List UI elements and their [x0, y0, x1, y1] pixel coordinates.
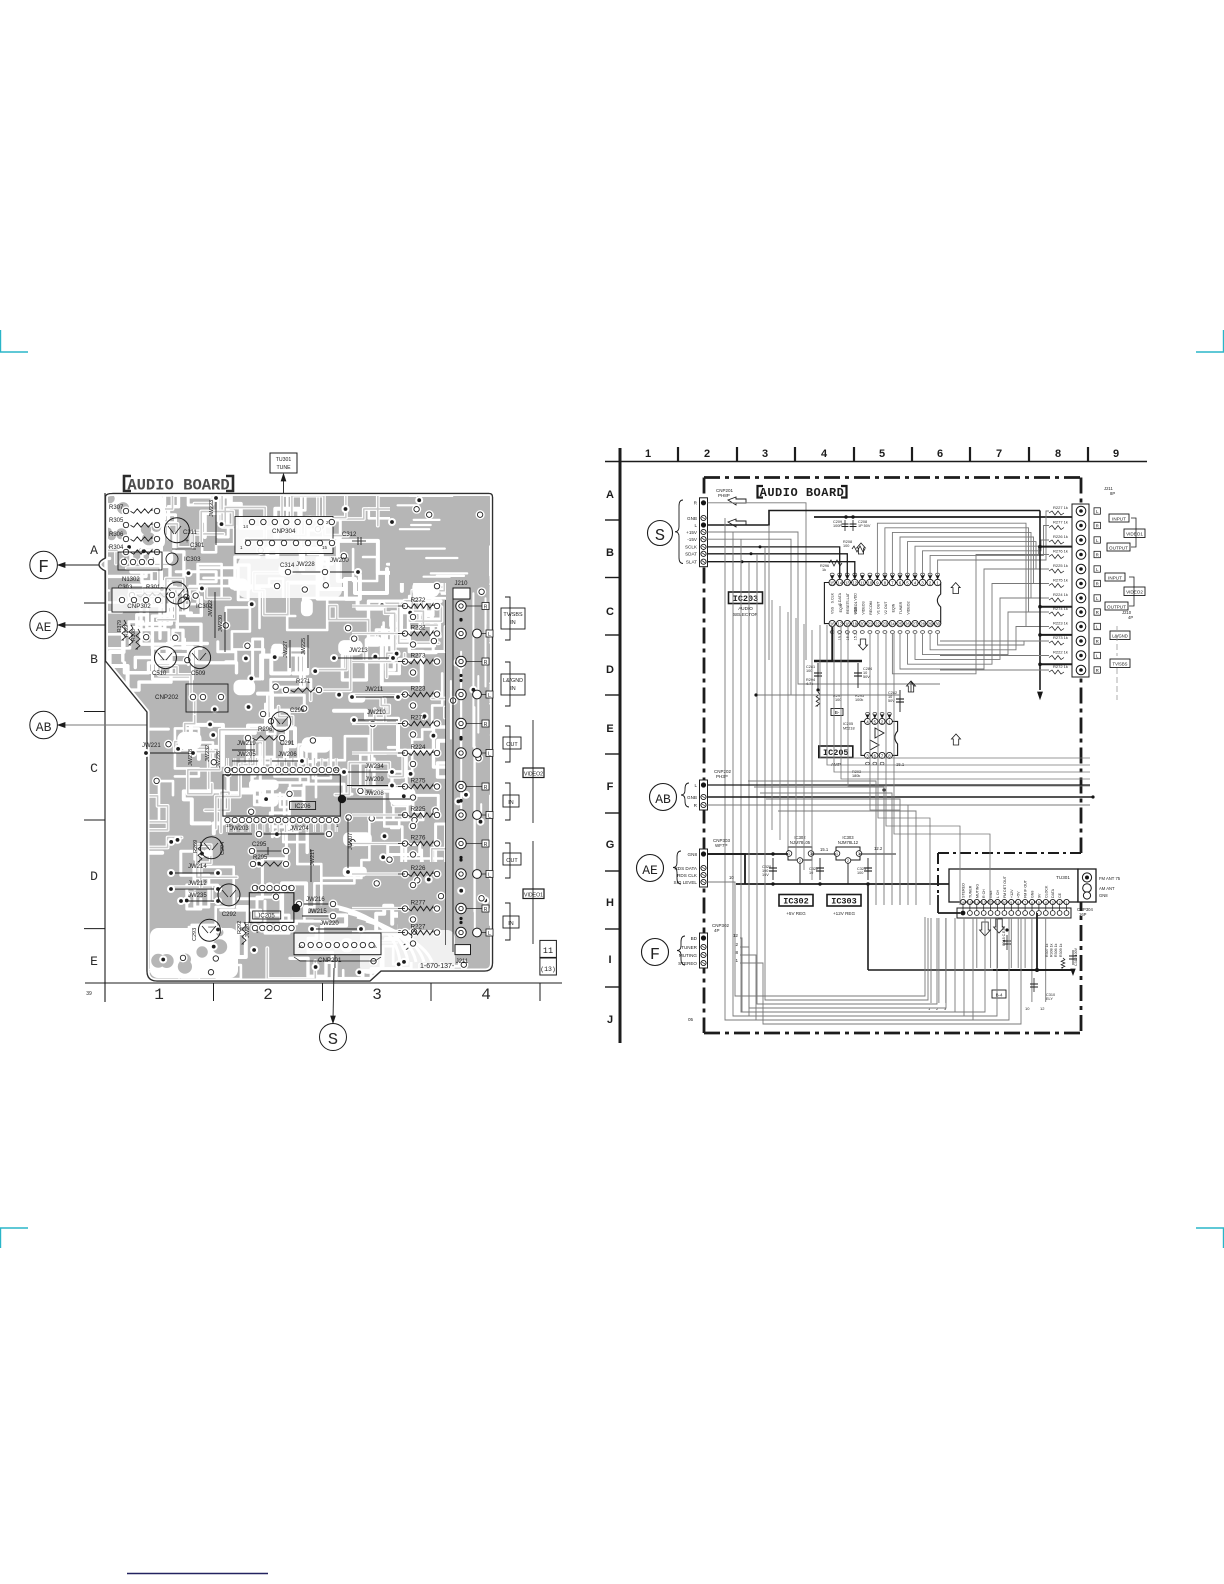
bracket L/GND group	[505, 662, 510, 706]
channel box R	[482, 603, 489, 610]
svg-text:B: B	[606, 547, 614, 559]
label IN video2	[503, 795, 519, 807]
svg-text:R306: R306	[109, 532, 124, 538]
svg-text:JW228: JW228	[296, 562, 315, 568]
ic206 pin fingers	[226, 758, 229, 766]
tuner pins	[960, 899, 965, 904]
svg-text:100: 100	[843, 544, 849, 548]
svg-text:L: L	[488, 632, 491, 638]
svg-text:9: 9	[1113, 448, 1119, 460]
svg-text:IC302: IC302	[783, 897, 809, 907]
svg-text:S.DATA: S.DATA	[838, 592, 842, 605]
jack pad row R273	[456, 656, 466, 666]
ic IC205 outline on board	[249, 893, 294, 923]
svg-text:RESET: RESET	[846, 601, 850, 614]
svg-text:15: 15	[830, 581, 835, 586]
svg-text:F: F	[38, 558, 49, 578]
flag B- box	[831, 709, 843, 716]
svg-text:GN8: GN8	[1099, 893, 1108, 898]
svg-text:C311: C311	[183, 530, 198, 536]
svg-text:TUNE: TUNE	[276, 465, 291, 471]
arrow down under IC203	[859, 639, 868, 650]
svg-text:L: L	[694, 523, 697, 528]
page crop mark bottom-left	[1, 1228, 29, 1248]
junction row y695	[756, 694, 900, 696]
wire to flag AB	[58, 724, 160, 726]
svg-text:JW230: JW230	[218, 615, 224, 632]
svg-text:IC206: IC206	[295, 804, 312, 810]
svg-text:4: 4	[481, 986, 491, 1004]
capacitor C310	[1033, 978, 1035, 992]
svg-text:D: D	[90, 869, 98, 884]
label TV/SBS IN	[501, 608, 525, 629]
wire IC303 output down	[867, 884, 869, 970]
capacitor C509	[189, 647, 211, 669]
pcb board outline restroke	[99, 494, 493, 982]
svg-text:R: R	[1096, 610, 1099, 615]
channel square R	[1094, 551, 1100, 557]
capacitor C294	[200, 837, 222, 859]
ic IC205 pins	[865, 718, 871, 724]
svg-text:R: R	[484, 722, 488, 728]
ic IC203 designator box	[729, 592, 763, 604]
svg-text:IN: IN	[508, 800, 513, 806]
wire tuner feed	[937, 895, 939, 913]
bus +B thick	[814, 516, 1072, 518]
wire AE GN8 down	[708, 854, 746, 884]
bundle from flag F connector	[740, 918, 985, 1012]
svg-text:IC205: IC205	[259, 914, 276, 920]
svg-text:JW218: JW218	[188, 749, 194, 766]
wire CNP201 to flag S	[334, 955, 336, 968]
channel square L	[1094, 537, 1100, 543]
channel box L	[486, 750, 493, 757]
transistor near R301	[166, 582, 188, 604]
svg-text:C: C	[90, 761, 98, 776]
svg-text:JW200: JW200	[330, 558, 349, 564]
svg-text:J: J	[607, 1014, 613, 1026]
flag B-4 box	[992, 990, 1006, 998]
net group dashes right	[1116, 626, 1118, 656]
regulator IC302 symbol	[788, 847, 812, 860]
svg-text:L: L	[488, 693, 491, 699]
svg-text:19: 19	[852, 622, 857, 627]
svg-text:JW201: JW201	[245, 921, 251, 938]
connector J210	[453, 588, 470, 599]
jack pad row R223	[456, 689, 466, 699]
svg-text:R223: R223	[411, 686, 426, 693]
svg-text:C318 C.EXT: C318 C.EXT	[1002, 925, 1006, 946]
channel square R	[1094, 667, 1100, 673]
channel square R	[1094, 638, 1100, 644]
svg-text:H: H	[606, 897, 614, 909]
bracket IN group video1	[505, 903, 510, 940]
svg-text:IN: IN	[510, 686, 515, 692]
svg-text:VIDEO3: VIDEO3	[862, 601, 866, 614]
svg-text:JW212: JW212	[188, 881, 207, 887]
capacitor C322	[819, 858, 821, 880]
svg-text:JW214: JW214	[188, 864, 207, 870]
svg-text:SDAT: SDAT	[685, 552, 697, 557]
schematic title AUDIO BOARD	[758, 486, 764, 498]
opamp triangles IC205	[875, 728, 884, 738]
svg-text:R: R	[1096, 582, 1099, 587]
label VIDEO2	[523, 768, 544, 778]
svg-text:GNB: GNB	[687, 795, 697, 800]
thick bar above IC205	[814, 660, 862, 663]
ic IC203 body	[824, 583, 940, 624]
svg-text:JW208: JW208	[365, 791, 384, 797]
channel box R	[482, 783, 489, 790]
label VIDEO1 schematic	[1124, 529, 1145, 538]
svg-text:24: 24	[890, 622, 895, 627]
svg-text:VIDEO2: VIDEO2	[524, 772, 543, 778]
capacitor C284	[857, 663, 859, 688]
svg-text:JW203: JW203	[230, 826, 249, 832]
svg-text:RECOM: RECOM	[869, 601, 873, 614]
svg-text:JW226: JW226	[216, 751, 222, 768]
svg-text:4P: 4P	[714, 928, 720, 933]
capacitor C321	[867, 858, 869, 880]
channel box L	[486, 691, 493, 698]
svg-text:180k: 180k	[852, 774, 860, 778]
svg-text:F: F	[607, 781, 614, 793]
svg-text:L: L	[488, 931, 491, 937]
svg-text:AE: AE	[36, 620, 52, 635]
wire AB L	[708, 784, 1091, 786]
svg-text:EQIN: EQIN	[892, 603, 896, 612]
svg-text:12.2: 12.2	[874, 846, 883, 851]
left title AUDIO BOARD	[124, 476, 131, 491]
thick jack feeders	[1040, 546, 1072, 548]
schematic grid ruler	[619, 448, 622, 1043]
capacitor C510	[155, 647, 177, 669]
label TV/SBS	[1110, 659, 1130, 668]
ic IC303 designator box	[827, 895, 861, 907]
svg-text:(13): (13)	[540, 966, 556, 973]
svg-text:VIDEO1: VIDEO1	[524, 893, 543, 899]
tuner antenna jacks	[1082, 873, 1091, 882]
svg-text:R308: R308	[131, 629, 137, 641]
label VIDEO2 schematic	[1124, 587, 1145, 596]
wire SLAT	[708, 562, 855, 576]
svg-text:R276 1k: R276 1k	[1053, 549, 1068, 554]
tuner section dash-dot boundary	[938, 852, 1081, 854]
svg-text:TUNER: TUNER	[681, 945, 698, 950]
channel square L	[1094, 566, 1100, 572]
svg-text:50V: 50V	[863, 675, 870, 679]
label INPUT video1	[1109, 514, 1129, 522]
svg-text:16: 16	[228, 767, 234, 772]
svg-text:8: 8	[1055, 448, 1061, 460]
pcb board outline	[99, 494, 493, 982]
label OUTPUT video1	[1107, 543, 1130, 551]
svg-text:2: 2	[735, 942, 738, 947]
connector CNP304 row	[957, 908, 1071, 918]
jack pad row R276	[456, 838, 466, 848]
svg-text:R: R	[1096, 668, 1099, 673]
svg-text:V1 OUT: V1 OUT	[877, 601, 881, 615]
svg-text:6: 6	[1031, 901, 1033, 905]
bracket video2 io	[1129, 577, 1134, 606]
thick vertical jack bus	[1039, 511, 1041, 691]
svg-text:R: R	[1096, 553, 1099, 558]
svg-text:2: 2	[847, 859, 849, 863]
svg-text:EQIN: EQIN	[839, 603, 843, 612]
svg-text:JW225: JW225	[301, 638, 307, 655]
channel box R	[482, 905, 489, 912]
wire -15V	[708, 539, 792, 695]
svg-text:IN: IN	[508, 921, 513, 927]
svg-text:L: L	[488, 873, 491, 879]
svg-text:R CH: R CH	[982, 889, 986, 898]
svg-text:R272: R272	[411, 597, 426, 604]
jack pad row R225	[456, 810, 466, 820]
regulator ground bus	[736, 883, 1092, 885]
svg-text:R227 1k: R227 1k	[1053, 505, 1068, 510]
svg-text:IC303: IC303	[831, 897, 857, 907]
svg-text:JW207: JW207	[348, 833, 354, 850]
svg-text:11: 11	[860, 581, 865, 586]
svg-text:R309 1k: R309 1k	[1059, 943, 1063, 957]
svg-text:NJM78L12: NJM78L12	[838, 840, 859, 845]
svg-text:G: G	[606, 839, 615, 851]
jack pad row R222	[456, 628, 466, 638]
svg-text:C312 100V: C312 100V	[1074, 947, 1078, 966]
svg-text:R305: R305	[109, 518, 124, 524]
svg-text:R277: R277	[411, 900, 426, 907]
wire +15V	[708, 532, 941, 684]
svg-text:J210: J210	[454, 581, 468, 587]
connector CNP302 lower	[112, 588, 166, 612]
svg-text:L: L	[488, 814, 491, 820]
capacitor C208	[852, 520, 854, 531]
arrow up right of IC203	[951, 583, 960, 594]
wire SDAT	[708, 554, 848, 576]
svg-text:+5V REG: +5V REG	[786, 911, 806, 916]
jack pad row R275	[456, 781, 466, 791]
channel box L	[486, 929, 493, 936]
svg-text:SLAT: SLAT	[686, 560, 697, 565]
svg-text:R: R	[1096, 639, 1099, 644]
svg-text:5: 5	[1038, 901, 1040, 905]
svg-text:AE: AE	[642, 863, 658, 878]
svg-text:8: 8	[735, 950, 738, 955]
arrow down tuner 2	[994, 919, 1005, 933]
channel box R	[482, 720, 489, 727]
flag F schematic	[677, 936, 685, 965]
wire AB GNB	[708, 796, 1094, 798]
svg-text:JW221: JW221	[142, 743, 161, 749]
tuner long feeder	[768, 525, 770, 660]
svg-text:TU301: TU301	[276, 457, 292, 463]
regulator pin2 drops	[799, 863, 801, 884]
wire to flag AE	[58, 624, 105, 626]
svg-text:15.1: 15.1	[820, 847, 829, 852]
svg-text:15: 15	[322, 545, 328, 550]
channel square R	[1094, 580, 1100, 586]
connector CNP202	[186, 684, 228, 712]
channel square R	[1094, 609, 1100, 615]
svg-text:13: 13	[982, 901, 986, 905]
channel square L	[1094, 623, 1100, 629]
connector CNP302 upper	[118, 552, 162, 570]
sheet number box 13	[540, 958, 557, 975]
label INPUT video2	[1105, 573, 1125, 581]
bracket video1 io	[1131, 518, 1136, 547]
staircase bundle top to jacks	[938, 511, 1049, 576]
svg-text:VIDEO1: VIDEO1	[1126, 532, 1143, 537]
jack strip J211/J210	[1072, 504, 1089, 677]
capacitor C293	[198, 919, 220, 941]
long verticals middle	[771, 600, 773, 830]
svg-text:R225: R225	[411, 806, 426, 813]
label L&/GND IN	[501, 674, 525, 695]
nested wires rows E-G	[820, 625, 1090, 758]
flag AE	[30, 611, 58, 639]
svg-text:I: I	[608, 954, 611, 966]
svg-text:8P: 8P	[1110, 491, 1115, 496]
pads CNP302	[119, 557, 128, 566]
svg-text:12: 12	[1040, 1006, 1045, 1011]
svg-text:E: E	[606, 723, 613, 735]
svg-text:100: 100	[857, 871, 863, 875]
svg-text:INPUT: INPUT	[1112, 517, 1126, 522]
svg-text:10: 10	[729, 875, 734, 880]
svg-text:AUDIO BOARD: AUDIO BOARD	[127, 477, 229, 495]
svg-text:PH8P: PH8P	[718, 493, 730, 498]
svg-text:INPUT: INPUT	[1108, 576, 1122, 581]
svg-text:AUDIO BOARD: AUDIO BOARD	[760, 486, 845, 500]
svg-text:AB: AB	[36, 720, 52, 735]
svg-text:S: S	[328, 1031, 338, 1050]
svg-text:D: D	[606, 664, 614, 676]
svg-text:F: F	[650, 946, 660, 965]
svg-text:3: 3	[1052, 901, 1054, 905]
capacitor C320	[772, 858, 774, 880]
label LR/GND	[1110, 631, 1130, 640]
svg-text:JW215: JW215	[308, 909, 327, 915]
channel square R	[1094, 522, 1100, 528]
svg-text:OUTPUT: OUTPUT	[1107, 605, 1126, 610]
svg-text:14: 14	[975, 901, 979, 905]
svg-text:JW211: JW211	[365, 687, 384, 693]
svg-text:JW227: JW227	[283, 641, 289, 658]
footer rule	[127, 1573, 268, 1575]
svg-text:OUTPUT: OUTPUT	[1109, 546, 1128, 551]
svg-text:R: R	[484, 785, 488, 791]
svg-text:JW235: JW235	[188, 893, 207, 899]
svg-text:4: 4	[1045, 901, 1047, 905]
svg-text:CNP304: CNP304	[272, 528, 296, 535]
svg-text:MUTING: MUTING	[679, 953, 698, 958]
wire pin16 drop	[831, 627, 833, 661]
svg-text:JW219: JW219	[237, 741, 256, 747]
callout TU301 TUNE	[270, 453, 297, 473]
svg-text:8: 8	[1017, 901, 1019, 905]
svg-text:2: 2	[1059, 901, 1061, 905]
svg-text:+15V: +15V	[686, 530, 698, 535]
pads CNP202	[188, 692, 197, 701]
channel box L	[486, 630, 493, 637]
svg-text:100P: 100P	[833, 524, 842, 528]
arrow out R	[728, 497, 746, 505]
svg-text:RDS DATA: RDS DATA	[674, 866, 697, 871]
svg-text:L: L	[488, 752, 491, 758]
svg-text:17: 17	[837, 622, 842, 627]
pads IC205 board	[250, 883, 259, 892]
svg-text:30: 30	[935, 622, 940, 627]
svg-text:9V: 9V	[1037, 893, 1041, 898]
svg-text:16: 16	[961, 901, 965, 905]
svg-text:R222: R222	[411, 625, 426, 632]
svg-text:CE: CE	[1058, 892, 1062, 898]
capacitor C292	[218, 884, 240, 906]
svg-text:R296: R296	[258, 727, 273, 733]
svg-text:1: 1	[836, 852, 838, 856]
svg-text:GNB: GNB	[687, 516, 697, 521]
svg-text:27: 27	[913, 622, 918, 627]
svg-text:C291: C291	[280, 741, 295, 747]
jack pad row R226	[456, 869, 466, 879]
arrow up near caps	[857, 543, 866, 554]
svg-text:IC303: IC303	[184, 556, 201, 563]
capacitor C311	[164, 518, 189, 543]
svg-text:R379: R379	[117, 620, 123, 632]
svg-text:IC302: IC302	[196, 603, 213, 610]
connector J211	[455, 945, 471, 955]
page crop mark top-right	[1196, 330, 1224, 352]
gray feeders to jack resistors	[940, 640, 1049, 642]
trace fan near CNP201	[330, 905, 400, 962]
ic IC203 top pins	[829, 579, 835, 585]
svg-text:L&/GND: L&/GND	[503, 678, 523, 684]
svg-text:VDD: VDD	[853, 593, 857, 601]
capacitor C318	[1006, 935, 1008, 950]
svg-text:C510: C510	[152, 671, 167, 677]
svg-text:R306 1k: R306 1k	[1054, 943, 1058, 957]
channel box L	[486, 812, 493, 819]
svg-text:SCLK: SCLK	[685, 545, 698, 550]
svg-text:JW209: JW209	[365, 777, 384, 783]
svg-text:OUT: OUT	[506, 858, 518, 864]
svg-text:21: 21	[868, 622, 873, 627]
svg-text:R269: R269	[193, 840, 199, 853]
ic IC205 body	[861, 721, 898, 755]
svg-text:29: 29	[928, 622, 933, 627]
svg-text:CNP201: CNP201	[318, 957, 342, 964]
svg-text:+5V: +5V	[1017, 891, 1021, 898]
svg-text:GN8: GN8	[688, 852, 698, 857]
svg-text:C509: C509	[191, 671, 206, 677]
junction dots below tuner	[1005, 928, 1008, 931]
svg-text:JW205: JW205	[237, 752, 256, 758]
svg-text:1: 1	[645, 448, 651, 460]
wire AB R	[708, 804, 1091, 806]
wire SCLK	[708, 547, 840, 576]
svg-text:ELY: ELY	[1046, 997, 1053, 1001]
ic IC206 outline	[223, 775, 340, 816]
svg-text:10: 10	[1002, 901, 1006, 905]
svg-text:M5218: M5218	[843, 727, 855, 731]
svg-text:CNP302: CNP302	[127, 603, 151, 610]
connector CNP201	[294, 933, 381, 955]
svg-text:12: 12	[989, 901, 993, 905]
capacitor C296	[271, 712, 291, 732]
svg-text:22: 22	[875, 622, 880, 627]
jack pad row R227	[456, 927, 466, 937]
svg-text:R308 1k: R308 1k	[1050, 943, 1054, 957]
